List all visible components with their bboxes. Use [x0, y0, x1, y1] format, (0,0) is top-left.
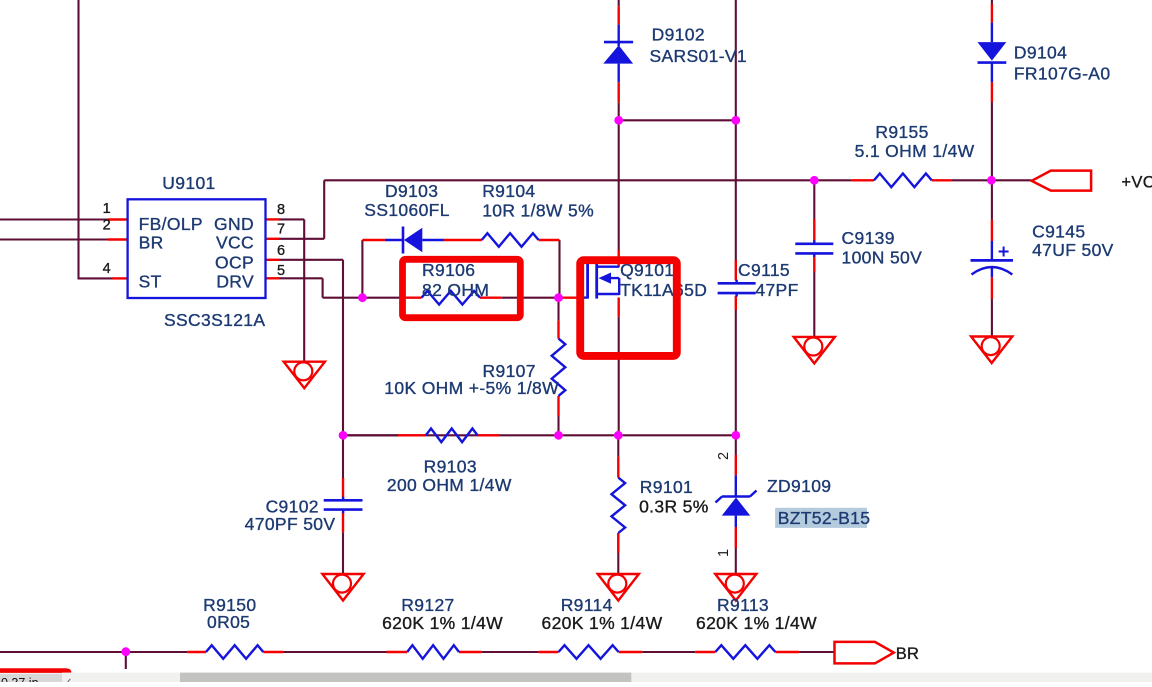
wire GND corner down to ground [303, 219, 305, 362]
pin ZD9109 1 [735, 527, 737, 548]
svg-text:VCC: VCC [216, 232, 254, 252]
wire R9107 to bus [557, 416, 559, 435]
wire ST pin horizontal [79, 277, 114, 279]
resistor R9114 [559, 645, 619, 659]
pin R9150 2 [263, 651, 283, 653]
pin Q9101 drain lead [618, 250, 620, 267]
pin R9114 2 [619, 651, 643, 653]
pin 7 stub VCC [266, 238, 280, 240]
wire VCC pin to corner [279, 238, 324, 240]
wire bus to R9103 left [343, 434, 398, 436]
svg-text:OCP: OCP [215, 253, 254, 273]
wire R9127 to R9114 [482, 651, 539, 653]
wire D9104 top stub [991, 0, 993, 4]
svg-text:BZT52-B15: BZT52-B15 [778, 508, 871, 528]
svg-text:620K 1% 1/4W: 620K 1% 1/4W [542, 613, 663, 633]
wire secondary column to C9115 [735, 120, 737, 260]
wire D9102 to junction [618, 103, 620, 121]
resistor R9127 [407, 645, 459, 659]
pin R9155 2 [932, 179, 951, 181]
svg-text:6: 6 [277, 243, 285, 259]
wire R9101 top [617, 435, 619, 456]
svg-text:10K OHM +-5% 1/8W: 10K OHM +-5% 1/8W [384, 378, 559, 398]
ground (C9145) [971, 337, 1012, 364]
junction C9139 tap [810, 176, 819, 185]
svg-text:GND: GND [214, 214, 254, 234]
svg-text:ZD9109: ZD9109 [767, 476, 831, 496]
wire C9139 to ground [813, 272, 815, 338]
svg-text:0R05: 0R05 [207, 612, 250, 632]
junction D9102 bottom [614, 116, 623, 125]
pin R9113 1 [695, 651, 715, 653]
svg-text:R9106: R9106 [422, 260, 475, 280]
pin R9106 2 [480, 297, 502, 299]
wire C9115 to bus [735, 310, 737, 435]
node B junction [554, 293, 563, 302]
svg-text:470PF 50V: 470PF 50V [245, 514, 336, 534]
wire bottom bus [343, 434, 736, 436]
svg-text:2: 2 [716, 452, 732, 460]
junction bus C9115 [731, 431, 740, 440]
svg-text:R9114: R9114 [561, 595, 613, 615]
ground (C9102) [322, 574, 363, 601]
ground (C9139) [794, 337, 835, 364]
wire OCP pin to corner [279, 259, 343, 261]
wire node A to R9106 [362, 297, 401, 299]
pin C9115 1 [735, 260, 737, 281]
wire R9114 to R9113 [642, 651, 695, 653]
pin D9102 cathode [618, 6, 620, 24]
svg-text:620K 1% 1/4W: 620K 1% 1/4W [382, 613, 503, 633]
diode D9102 [603, 25, 633, 83]
wire ZD9109 bottom to ground [735, 548, 737, 575]
svg-text:200 OHM 1/4W: 200 OHM 1/4W [387, 475, 512, 495]
port BR connector [835, 642, 894, 664]
pin R9101 2 [617, 533, 619, 553]
svg-text:FB/OLP: FB/OLP [139, 214, 203, 234]
pin R9103 1 [398, 434, 426, 436]
svg-text:SS1060FL: SS1060FL [364, 200, 450, 220]
pin R9104 2 [539, 239, 560, 241]
svg-text:2: 2 [103, 218, 111, 234]
pin ZD9109 2 [735, 455, 737, 475]
pin Q9101 gate lead [559, 297, 581, 299]
diode D9104 [978, 23, 1007, 83]
resistor R9106 [422, 291, 481, 305]
wire to FB/OLP from left edge [0, 218, 108, 220]
svg-text:0.3R 5%: 0.3R 5% [639, 496, 709, 516]
svg-text:5: 5 [277, 263, 285, 279]
wire R9104 corner [558, 240, 560, 298]
svg-text:DRV: DRV [216, 272, 254, 292]
pin 4 stub ST [112, 277, 127, 279]
wire R9113 to BR connector [799, 651, 834, 653]
wire top rail to R9155 [324, 179, 852, 181]
resistor R9107 [552, 339, 566, 396]
wire DRV pin to corner [279, 277, 323, 279]
svg-text:R9103: R9103 [424, 457, 477, 477]
pin C9102 2 [342, 512, 344, 532]
pin 6 stub OCP [266, 259, 280, 261]
pin D9104 anode [991, 4, 993, 23]
pin C9145 2 [991, 277, 993, 299]
resistor R9155 [874, 174, 932, 188]
svg-text:BR: BR [896, 645, 920, 663]
pin C9139 1 [813, 219, 815, 242]
pin R9127 1 [387, 651, 408, 653]
scrollbar thumb [180, 673, 631, 682]
wire GND pin to corner [279, 218, 304, 220]
resistor R9150 [206, 645, 263, 659]
wire junction row [619, 119, 736, 121]
svg-text:SARS01-V1: SARS01-V1 [650, 46, 748, 66]
svg-text:TK11A65D: TK11A65D [620, 280, 707, 300]
svg-text:47UF 50V: 47UF 50V [1032, 240, 1114, 260]
svg-text:U9101: U9101 [162, 173, 215, 193]
pin D9102 anode [618, 82, 620, 103]
annotation highlight box around Q9101 [580, 260, 677, 356]
ground (IC GND pin) [284, 362, 325, 389]
svg-text:10R 1/8W 5%: 10R 1/8W 5% [482, 200, 594, 220]
junction secondary column [731, 116, 740, 125]
wire node A up to D9103 row [361, 240, 363, 298]
pin R9101 1 [617, 456, 619, 477]
ground (ZD9109) [715, 574, 756, 601]
pin D9103 anode / R9104 pin 1 [444, 239, 482, 241]
svg-text:C9139: C9139 [842, 228, 895, 248]
svg-text:C9115: C9115 [738, 260, 790, 280]
scrollbar status cell [0, 674, 62, 682]
resistor R9104 [482, 233, 539, 247]
junction bus R9107 [554, 431, 563, 440]
scrollbar track [62, 673, 1152, 682]
pin 2 stub FB/OLP [108, 218, 128, 220]
junction bottom rail [121, 647, 130, 656]
wire node B down [557, 298, 559, 321]
power connector +VO [1032, 171, 1091, 191]
svg-text:+VCC: +VCC [1121, 174, 1152, 192]
svg-text:‹: ‹ [67, 673, 71, 682]
pin R9106 1 [400, 297, 422, 299]
svg-text:7: 7 [277, 222, 285, 238]
pin D9103 cathode [362, 239, 385, 241]
pin R9155 1 [852, 179, 874, 181]
svg-text:82 OHM: 82 OHM [422, 280, 489, 300]
annotation highlight box around R9106 [403, 259, 521, 317]
wire junction stub down [125, 652, 127, 669]
wire OCP corner down to bus [342, 260, 344, 436]
pin R9103 2 [478, 434, 499, 436]
wire Q9101 source down to bus [618, 317, 620, 436]
wire R9155 to +VO junction [951, 179, 1032, 181]
svg-text:R9101: R9101 [640, 477, 693, 497]
pin R9113 2 [775, 651, 799, 653]
svg-text:8: 8 [277, 202, 285, 218]
pin C9115 2 [735, 296, 737, 310]
wire R9101 bottom to ground [617, 533, 619, 575]
svg-text:FR107G-A0: FR107G-A0 [1014, 64, 1111, 84]
pin R9107 1 [557, 320, 559, 338]
transistor Q9101 [581, 262, 620, 299]
capacitor C9139 [795, 240, 833, 257]
wire bottom rail from left edge [0, 651, 187, 653]
wire vertical feed at left [77, 0, 79, 280]
pin R9107 2 [557, 396, 559, 416]
svg-text:R9127: R9127 [401, 595, 454, 615]
svg-text:SSC3S121A: SSC3S121A [164, 310, 265, 330]
wire C9102 to ground [342, 532, 344, 575]
pin C9102 1 [342, 478, 344, 498]
resistor R9101 [612, 478, 626, 533]
wire ZD9109 top [735, 435, 737, 455]
pin 8 stub GND [266, 218, 280, 220]
diode ZD9109 (zener) [716, 475, 757, 527]
svg-text:4: 4 [103, 261, 111, 277]
selection highlight BZT52-B15 [775, 508, 867, 528]
wire junction to C9145 [991, 180, 993, 220]
svg-text:620K 1% 1/4W: 620K 1% 1/4W [696, 613, 817, 633]
pin 3 stub BR [108, 238, 128, 240]
wire C9145 to ground [991, 299, 993, 338]
svg-text:BR: BR [139, 232, 164, 252]
diode D9103 [385, 227, 444, 254]
wire D9102 cathode up segment [618, 0, 620, 6]
svg-text:0.37 in: 0.37 in [1, 676, 39, 682]
wire R9150 to R9127 [283, 651, 386, 653]
wire to BR from left edge [0, 238, 108, 240]
svg-text:R9113: R9113 [717, 595, 769, 615]
svg-text:R9104: R9104 [482, 181, 535, 201]
pin 5 stub DRV [266, 277, 280, 279]
junction +VO node [987, 176, 996, 185]
wire drain column down [618, 120, 620, 250]
svg-text:5.1 OHM 1/4W: 5.1 OHM 1/4W [855, 141, 975, 161]
pin D9104 cathode [991, 82, 993, 102]
svg-text:1: 1 [716, 549, 732, 557]
pin Q9101 source lead [618, 298, 620, 317]
capacitor C9145 (polarized) [971, 241, 1014, 277]
resistor R9103 [426, 429, 478, 443]
ground (R9101) [598, 574, 639, 601]
svg-text:100N 50V: 100N 50V [842, 248, 923, 268]
capacitor C9115 [718, 280, 756, 297]
pin R9114 1 [538, 651, 558, 653]
resistor R9113 [715, 645, 775, 659]
wire secondary winding column [735, 0, 737, 120]
svg-text:D9102: D9102 [652, 25, 705, 45]
wire D9104 to +VO junction [991, 102, 993, 180]
wire rail to C9139 [813, 180, 815, 219]
wire DRV corner down [322, 278, 324, 297]
svg-text:D9103: D9103 [385, 181, 438, 201]
pin C9139 2 [813, 256, 815, 272]
wire R9106 to node B [502, 297, 559, 299]
wire DRV to node A [323, 297, 363, 299]
wire VCC corner up to rail [323, 180, 325, 239]
capacitor C9102 [324, 497, 363, 513]
svg-text:D9104: D9104 [1014, 43, 1067, 63]
svg-text:47PF: 47PF [755, 280, 798, 300]
annotation highlight bar bottom-left (cut off) [0, 668, 71, 673]
pin R9127 2 [459, 651, 482, 653]
wire bus to C9102 [342, 435, 344, 478]
node A junction [358, 293, 367, 302]
svg-text:1: 1 [103, 201, 111, 217]
pin R9150 1 [187, 651, 206, 653]
pin C9145 1 [991, 220, 993, 241]
op-amp U9101 body SSC3S121A [128, 199, 266, 298]
svg-text:R9155: R9155 [875, 122, 928, 142]
svg-text:C9145: C9145 [1032, 222, 1085, 242]
junction bus Q9101 source [614, 431, 623, 440]
junction bus OCP [339, 431, 348, 440]
svg-text:ST: ST [139, 272, 162, 292]
